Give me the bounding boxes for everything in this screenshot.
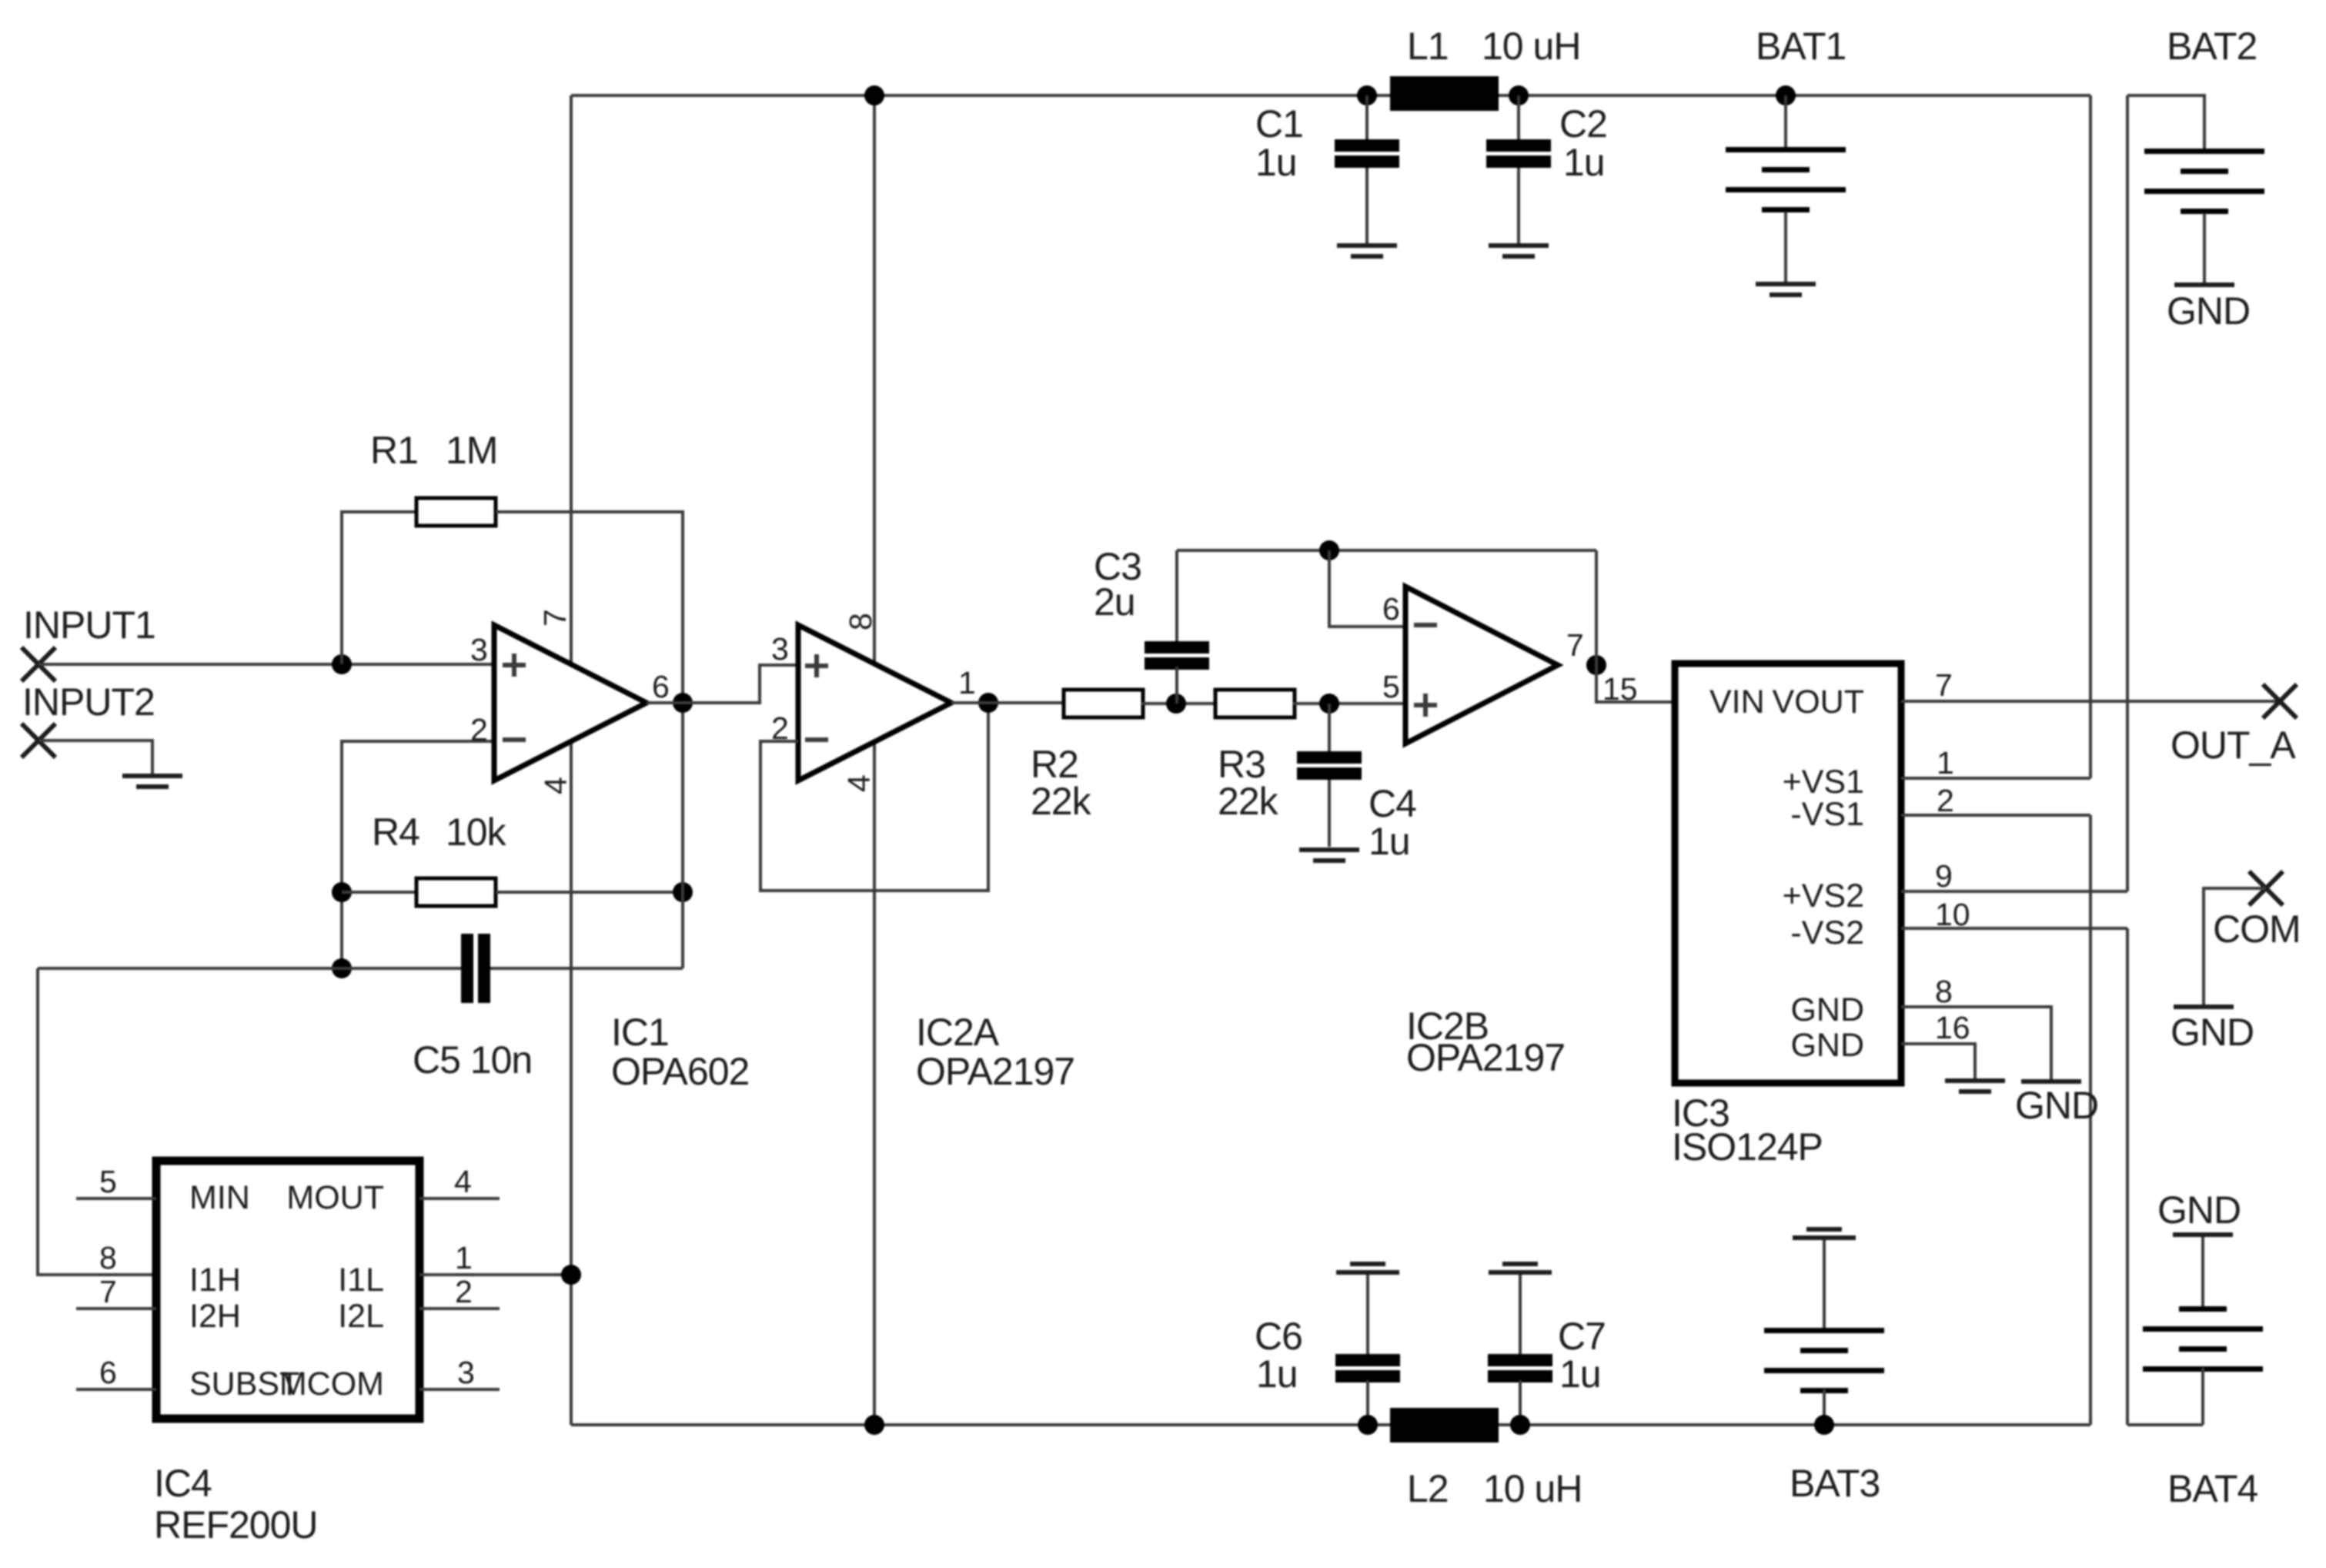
svg-text:7: 7	[1935, 667, 1953, 703]
svg-text:GND: GND	[2157, 1189, 2241, 1232]
svg-text:22k: 22k	[1031, 780, 1092, 823]
wire IC3 pin 2	[1901, 814, 2090, 817]
wire +supply2 rail (BAT2 to IC3 pin 9)	[2126, 95, 2129, 891]
svg-text:C6: C6	[1255, 1315, 1302, 1358]
wire -supply1 rail (IC3 pin 2 to bottom rail)	[2089, 815, 2092, 1425]
terminal X OUT_A	[2263, 684, 2297, 718]
wire C5 right lead	[490, 967, 683, 970]
node C6 bottom junction	[1358, 1415, 1378, 1435]
svg-text:MIN: MIN	[189, 1179, 250, 1216]
svg-text:C5 10n: C5 10n	[413, 1038, 532, 1082]
svg-text:GND: GND	[2167, 289, 2250, 333]
battery BAT3	[1764, 1240, 1884, 1425]
svg-text:1u: 1u	[1563, 141, 1605, 184]
svg-text:2: 2	[455, 1274, 473, 1309]
svg-text:L2: L2	[1407, 1467, 1449, 1510]
svg-text:IC1: IC1	[611, 1011, 669, 1054]
ground below INPUT2	[122, 774, 182, 789]
svg-text:+VS1: +VS1	[1783, 764, 1864, 801]
wire BAT2 top link	[2127, 95, 2204, 150]
node top rail / mid rail junction	[864, 85, 884, 105]
label C2 1u	[1559, 102, 1607, 184]
svg-text:5: 5	[1382, 669, 1400, 704]
wire INPUT1 to IC1 pin 3	[38, 663, 494, 666]
svg-text:C7: C7	[1558, 1315, 1606, 1358]
label C3 2u	[1094, 545, 1141, 624]
battery BAT2	[2144, 149, 2264, 283]
op-amp IC1 OPA602	[494, 625, 647, 781]
wire IC3 pin 1	[1901, 777, 2090, 780]
label R3 22k	[1218, 743, 1279, 823]
svg-text:9: 9	[1935, 858, 1953, 894]
node bottom rail / mid rail junction	[864, 1415, 884, 1435]
ground below C1	[1337, 243, 1397, 259]
svg-text:22k: 22k	[1218, 780, 1279, 823]
svg-text:BAT4: BAT4	[2167, 1467, 2258, 1510]
svg-text:10k: 10k	[446, 811, 507, 854]
label C7 1u	[1558, 1315, 1606, 1396]
svg-text:GND: GND	[1790, 1027, 1864, 1064]
plus input marker IC2A	[805, 654, 828, 677]
svg-text:R4: R4	[372, 811, 419, 854]
svg-text:I1L: I1L	[338, 1262, 384, 1299]
label IC3 ISO124P	[1672, 1092, 1823, 1168]
node R3/C4/IC2B junction	[1319, 694, 1339, 714]
capacitor C4	[1297, 704, 1362, 847]
svg-text:VIN: VIN	[1709, 684, 1765, 720]
node R4 left junction	[332, 882, 352, 902]
svg-text:GND: GND	[1790, 991, 1864, 1028]
svg-text:VOUT: VOUT	[1773, 684, 1864, 720]
svg-text:INPUT2: INPUT2	[22, 680, 155, 724]
svg-text:I2L: I2L	[338, 1298, 384, 1335]
wire top supply rail	[571, 94, 2090, 97]
wire C5 node to IC4 pin 8	[38, 968, 156, 1275]
svg-text:1: 1	[1937, 745, 1954, 781]
wire IC4 pin 1 to supply rail	[419, 1273, 571, 1276]
svg-text:1u: 1u	[1559, 1352, 1601, 1396]
svg-text:3: 3	[457, 1355, 475, 1390]
svg-text:OUT_A: OUT_A	[2171, 724, 2296, 767]
wire IC4 pin 6	[76, 1388, 156, 1391]
label R1 1M	[370, 429, 497, 472]
capacitor C1	[1335, 95, 1399, 245]
capacitor C6	[1335, 1275, 1400, 1425]
terminal X COM	[2249, 871, 2283, 905]
svg-text:7: 7	[1566, 627, 1584, 663]
svg-text:3: 3	[470, 632, 488, 667]
label IC2A OPA2197	[916, 1011, 1074, 1093]
svg-text:C2: C2	[1559, 102, 1607, 145]
inductor L1	[1390, 76, 1499, 111]
wire output node vertical (pin6 to C5)	[681, 703, 684, 968]
wire IC2B output to IC3 VIN	[1596, 665, 1675, 702]
svg-text:I2H: I2H	[189, 1298, 241, 1335]
wire R1 right lead to output node	[496, 512, 683, 703]
ground below C4	[1299, 848, 1359, 863]
label C1 1u	[1255, 102, 1303, 184]
svg-text:8: 8	[1935, 974, 1953, 1009]
node BAT3 bottom junction	[1814, 1415, 1834, 1435]
ground below C2	[1489, 243, 1549, 259]
node R2/R3/C3 junction	[1166, 694, 1186, 714]
svg-text:6: 6	[1382, 591, 1400, 627]
battery BAT4	[2143, 1237, 2263, 1425]
svg-text:I1H: I1H	[189, 1262, 241, 1299]
capacitor C3	[1145, 550, 1209, 704]
inverted ground above C6	[1336, 1262, 1399, 1275]
svg-text:GND: GND	[2015, 1084, 2098, 1127]
label L1 10 uH	[1407, 25, 1580, 68]
wire IC1 output to IC2A pin 3	[647, 665, 798, 703]
op-amp IC2B OPA2197	[1405, 587, 1558, 744]
svg-text:ISO124P: ISO124P	[1672, 1125, 1823, 1168]
node C7 bottom junction	[1510, 1415, 1530, 1435]
svg-text:6: 6	[652, 669, 670, 704]
svg-text:6: 6	[99, 1355, 117, 1390]
wire R4 left lead	[342, 891, 416, 894]
svg-text:C4: C4	[1369, 782, 1416, 825]
svg-text:1u: 1u	[1256, 1352, 1298, 1396]
inverted ground above BAT3	[1793, 1227, 1856, 1240]
op-amp IC2A OPA2197	[798, 625, 951, 781]
ground terminal above BAT4	[2173, 1232, 2233, 1237]
node IC4 pin 1 junction	[561, 1265, 581, 1285]
node R4 right junction	[673, 882, 693, 902]
wire IC3 pin 7 VOUT to OUT_A	[1901, 700, 2280, 703]
wire IC2B output feedback riser	[1595, 550, 1598, 665]
svg-text:IC4: IC4	[154, 1462, 212, 1505]
wire R2 to R3	[1141, 702, 1215, 705]
svg-text:INPUT1: INPUT1	[23, 603, 155, 647]
wire mid vertical supply rail (IC2 pins 8/4)	[873, 95, 876, 1425]
svg-text:4: 4	[841, 774, 877, 792]
ground terminal pin 8	[2021, 1079, 2081, 1084]
inductor L2	[1390, 1408, 1499, 1443]
node L1 right junction	[1509, 85, 1529, 105]
ground terminal COM	[2174, 1005, 2234, 1009]
svg-text:REF200U: REF200U	[154, 1503, 318, 1546]
label IC2B OPA2197	[1406, 1005, 1565, 1079]
capacitor C2	[1486, 95, 1551, 245]
svg-text:16: 16	[1935, 1010, 1970, 1045]
node IC1 output	[673, 693, 693, 713]
label R4 10k	[372, 811, 507, 854]
wire R3 to IC2B pin 5	[1293, 702, 1405, 705]
wire IC2A output to R2	[951, 701, 1064, 704]
svg-text:1u: 1u	[1255, 141, 1297, 184]
wire IC3 pin 16 to ground	[1901, 1044, 1975, 1079]
svg-text:10 uH: 10 uH	[1483, 1467, 1582, 1510]
wire IC4 pin 5	[76, 1197, 156, 1200]
minus input marker IC2B	[1414, 623, 1437, 627]
svg-text:R1: R1	[370, 429, 418, 472]
plus input marker IC2B	[1414, 694, 1437, 717]
svg-text:OPA602: OPA602	[611, 1050, 749, 1093]
node feedback / IC2B pin 6 junction	[1319, 540, 1339, 560]
wire feedback to IC2B pin 6	[1329, 550, 1405, 627]
wire IC4 pin 7	[76, 1307, 156, 1310]
svg-text:1u: 1u	[1369, 820, 1410, 863]
svg-text:-VS2: -VS2	[1790, 914, 1864, 951]
battery BAT1	[1726, 85, 1846, 283]
label R2 22k	[1031, 743, 1092, 823]
svg-text:BAT1: BAT1	[1756, 25, 1846, 68]
svg-text:8: 8	[99, 1240, 117, 1275]
wire IC3 pin 9	[1901, 890, 2127, 893]
label C6 1u	[1255, 1315, 1302, 1396]
svg-text:C1: C1	[1255, 102, 1303, 145]
wire IC4 pin 4	[419, 1197, 500, 1200]
wire IC4 pin 3	[419, 1388, 500, 1391]
inverted ground above C7	[1489, 1262, 1552, 1275]
wire +supply1 rail (top rail to IC3 pin 1)	[2089, 95, 2092, 778]
wire INPUT2 to ground	[38, 741, 152, 775]
svg-text:2: 2	[1937, 783, 1954, 818]
node L1 left junction	[1357, 85, 1377, 105]
svg-text:-VS1: -VS1	[1790, 796, 1864, 833]
IC U3 ISO124P box	[1675, 664, 1901, 1083]
resistor R2	[1064, 690, 1143, 717]
svg-text:OPA2197: OPA2197	[1406, 1036, 1565, 1079]
wire R4 right lead	[496, 891, 683, 894]
wire IC3 pin 10	[1901, 927, 2127, 930]
label IC4 REF200U	[154, 1462, 318, 1546]
svg-text:OPA2197: OPA2197	[916, 1050, 1074, 1093]
svg-text:4: 4	[538, 777, 573, 794]
wire C3 feedback top	[1177, 549, 1596, 552]
label L2 10 uH	[1407, 1467, 1582, 1510]
ground below BAT1	[1756, 282, 1816, 297]
svg-text:7: 7	[99, 1274, 117, 1309]
svg-text:7: 7	[537, 609, 573, 627]
svg-text:4: 4	[454, 1164, 472, 1199]
wire bottom supply rail	[571, 1423, 2090, 1426]
svg-text:8: 8	[843, 613, 878, 630]
svg-text:5: 5	[99, 1164, 117, 1199]
wire IC1 pin 2 lead	[342, 741, 494, 968]
svg-text:IC2A: IC2A	[916, 1011, 1000, 1054]
svg-text:COM: COM	[2213, 908, 2301, 951]
wire COM to ground	[2204, 888, 2266, 1005]
node IC2B output	[1586, 655, 1606, 675]
capacitor C7	[1488, 1275, 1552, 1425]
svg-text:15: 15	[1602, 671, 1638, 707]
svg-text:L1: L1	[1407, 25, 1449, 68]
node C5 left junction	[332, 958, 352, 978]
plus input marker IC1	[503, 654, 526, 677]
wire left vertical supply rail (IC1 pins 7/4)	[570, 95, 573, 1425]
label IC1 OPA602	[611, 1011, 749, 1093]
resistor R4	[416, 878, 496, 906]
svg-text:MCOM: MCOM	[279, 1366, 384, 1403]
ground pin 16	[1945, 1078, 2005, 1094]
minus input marker IC2A	[805, 737, 828, 742]
wire R1 left lead	[342, 512, 416, 664]
svg-text:1: 1	[958, 665, 976, 700]
minus input marker IC1	[503, 737, 526, 742]
capacitor C5	[461, 934, 490, 1003]
wire -supply2 rail (IC3 pin 10 to BAT4)	[2126, 928, 2129, 1425]
svg-text:10: 10	[1935, 897, 1970, 932]
label C4 1u	[1369, 782, 1416, 863]
svg-text:10 uH: 10 uH	[1482, 25, 1580, 68]
terminal X INPUT1	[22, 647, 55, 681]
svg-text:1M: 1M	[446, 429, 497, 472]
wire IC3 pin 8 to ground	[1901, 1007, 2051, 1079]
wire BAT4 bottom link	[2127, 1423, 2203, 1426]
IC IC4 REF200U box	[156, 1161, 419, 1419]
svg-text:3: 3	[771, 631, 789, 667]
svg-text:+VS2: +VS2	[1783, 878, 1864, 914]
resistor R3	[1215, 690, 1295, 717]
ground terminal below BAT2	[2174, 283, 2234, 287]
terminal X INPUT2	[22, 724, 55, 757]
wire C5 left lead	[38, 967, 462, 970]
svg-text:BAT3: BAT3	[1790, 1462, 1880, 1505]
svg-text:1: 1	[455, 1240, 473, 1275]
svg-text:GND: GND	[2171, 1011, 2254, 1054]
svg-text:2: 2	[470, 712, 488, 747]
wire IC2A feedback loop	[760, 703, 988, 891]
node INPUT1 / R1 junction	[332, 654, 352, 674]
node IC2A output	[978, 693, 998, 713]
svg-text:BAT2: BAT2	[2167, 25, 2257, 68]
wire IC4 pin 2	[419, 1307, 500, 1310]
svg-text:MOUT: MOUT	[286, 1179, 384, 1216]
resistor R1	[416, 498, 496, 526]
svg-text:2u: 2u	[1094, 580, 1135, 624]
